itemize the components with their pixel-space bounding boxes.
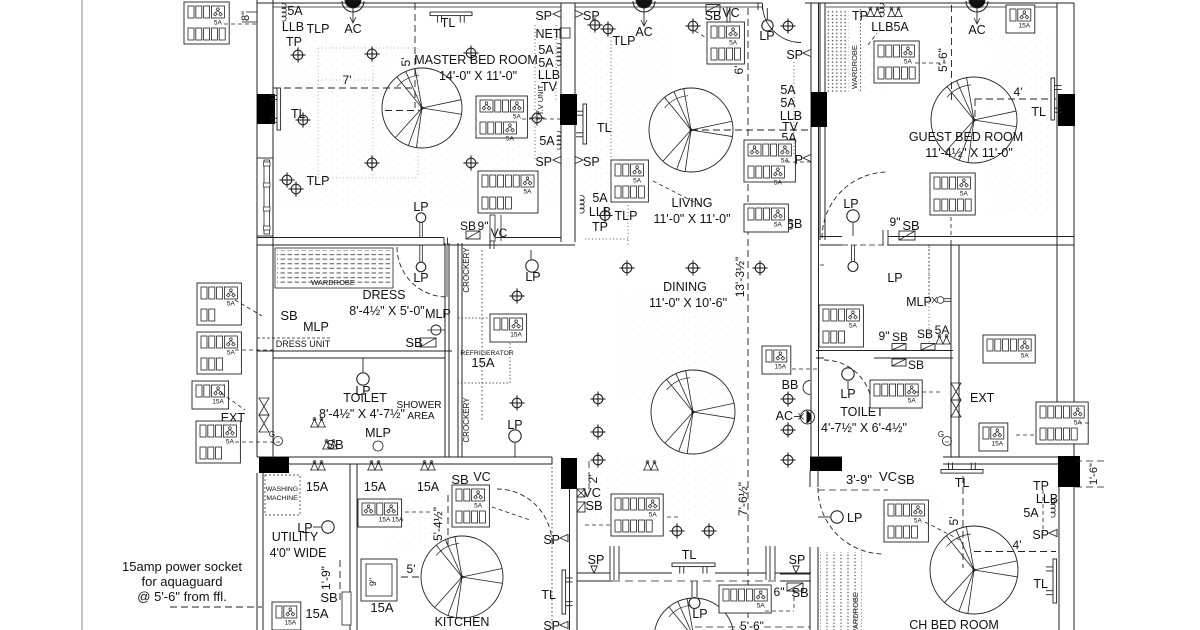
svg-text:SB: SB	[917, 327, 933, 341]
svg-text:SP: SP	[583, 155, 600, 169]
svg-text:SP: SP	[588, 553, 605, 567]
svg-text:MASTER BED ROOM: MASTER BED ROOM	[414, 53, 538, 67]
svg-text:BB: BB	[782, 378, 799, 392]
svg-text:5A: 5A	[633, 178, 642, 185]
svg-text:VC: VC	[491, 226, 508, 240]
svg-text:5': 5'	[947, 517, 961, 526]
svg-text:LP: LP	[759, 29, 774, 43]
svg-text:5A: 5A	[774, 180, 783, 187]
svg-text:TP: TP	[286, 35, 302, 49]
svg-text:5A: 5A	[287, 4, 303, 18]
svg-text:@ 5'-6" from ffl.: @ 5'-6" from ffl.	[137, 589, 226, 604]
svg-text:6': 6'	[732, 66, 746, 75]
svg-text:SP: SP	[1032, 528, 1049, 542]
svg-text:WARDROBE: WARDROBE	[851, 592, 860, 630]
svg-text:5A: 5A	[781, 158, 790, 165]
svg-text:WARDROBE: WARDROBE	[850, 45, 859, 89]
svg-text:14'-0" X 11'-0": 14'-0" X 11'-0"	[439, 69, 517, 83]
svg-text:5A: 5A	[729, 40, 738, 47]
svg-text:MLP: MLP	[365, 426, 391, 440]
svg-text:5A: 5A	[757, 603, 766, 610]
svg-text:15A: 15A	[1019, 23, 1031, 30]
svg-text:4': 4'	[1013, 538, 1022, 552]
svg-text:AC: AC	[776, 409, 793, 423]
svg-text:MLP: MLP	[906, 295, 932, 309]
svg-text:CROCKERY: CROCKERY	[462, 397, 471, 443]
svg-text:15A 15A: 15A 15A	[379, 517, 404, 524]
svg-text:1'-9": 1'-9"	[319, 566, 333, 590]
svg-text:5A: 5A	[539, 134, 555, 148]
svg-text:LLB5A: LLB5A	[871, 20, 909, 34]
svg-text:LP: LP	[297, 521, 312, 535]
svg-text:TL: TL	[597, 121, 612, 135]
svg-text:5'-4½": 5'-4½"	[431, 507, 445, 541]
svg-text:1'-6": 1'-6"	[1088, 463, 1100, 485]
svg-text:9": 9"	[368, 578, 378, 586]
svg-text:TL: TL	[291, 107, 306, 121]
svg-text:5A: 5A	[513, 114, 522, 121]
svg-text:for aquaguard: for aquaguard	[142, 574, 223, 589]
svg-text:TLP: TLP	[615, 209, 638, 223]
svg-text:5A: 5A	[774, 222, 783, 229]
svg-text:AC: AC	[968, 23, 985, 37]
svg-text:TP: TP	[592, 220, 608, 234]
svg-text:5A: 5A	[506, 136, 515, 143]
svg-text:WARDROBE: WARDROBE	[311, 278, 355, 287]
svg-text:TP: TP	[852, 9, 868, 23]
svg-text:LP: LP	[413, 200, 428, 214]
svg-text:15A: 15A	[775, 364, 787, 371]
svg-text:SB: SB	[585, 498, 602, 513]
svg-text:15A: 15A	[417, 480, 440, 494]
svg-text:EXT: EXT	[970, 391, 995, 405]
svg-text:5A: 5A	[592, 191, 608, 205]
svg-text:MLP: MLP	[303, 320, 329, 334]
svg-text:SB: SB	[897, 472, 914, 487]
svg-text:WASHING: WASHING	[266, 486, 298, 493]
svg-text:5A: 5A	[960, 191, 969, 198]
svg-text:LP: LP	[847, 511, 862, 525]
svg-text:5A: 5A	[1021, 353, 1030, 360]
svg-text:11'-0" X 10'-6": 11'-0" X 10'-6"	[649, 296, 727, 310]
svg-text:5A: 5A	[908, 398, 917, 405]
svg-text:15A: 15A	[510, 332, 522, 339]
svg-text:15A: 15A	[212, 399, 224, 406]
svg-text:LP: LP	[887, 271, 902, 285]
svg-text:15A: 15A	[992, 441, 1004, 448]
svg-text:LLB: LLB	[282, 20, 304, 34]
svg-text:TLP: TLP	[307, 22, 330, 36]
svg-text:LP: LP	[507, 418, 522, 432]
svg-text:SB: SB	[320, 590, 337, 605]
svg-text:LP: LP	[413, 271, 428, 285]
svg-text:5A: 5A	[904, 59, 913, 66]
svg-text:TL: TL	[441, 16, 456, 30]
svg-text:8'-4½" X 5'-0": 8'-4½" X 5'-0"	[349, 304, 425, 318]
svg-text:5A: 5A	[226, 439, 235, 446]
svg-text:15A: 15A	[285, 620, 297, 627]
svg-text:AC: AC	[635, 25, 652, 39]
svg-text:KITCHEN: KITCHEN	[435, 615, 490, 629]
svg-text:15A: 15A	[306, 480, 329, 494]
svg-text:VC: VC	[879, 469, 897, 484]
svg-text:15A: 15A	[364, 480, 387, 494]
svg-text:15A: 15A	[471, 355, 494, 370]
svg-text:MLP: MLP	[425, 307, 451, 321]
svg-text:LP: LP	[525, 270, 540, 284]
svg-text:TLP: TLP	[613, 34, 636, 48]
svg-text:15A: 15A	[305, 606, 328, 621]
svg-text:GUEST BED ROOM: GUEST BED ROOM	[909, 130, 1023, 144]
svg-text:G: G	[269, 430, 275, 439]
svg-text:TL: TL	[682, 548, 697, 562]
svg-text:NET: NET	[536, 27, 561, 41]
svg-text:5A: 5A	[649, 512, 658, 519]
svg-text:9": 9"	[879, 329, 890, 343]
svg-text:TL: TL	[541, 588, 556, 602]
svg-text:LP: LP	[692, 607, 707, 621]
svg-text:5A: 5A	[849, 323, 858, 330]
svg-text:SB: SB	[908, 358, 924, 372]
svg-text:SP: SP	[535, 155, 552, 169]
svg-text:5'-6": 5'-6"	[740, 619, 764, 630]
svg-text:SP: SP	[535, 9, 552, 23]
svg-text:4'-7½" X 6'-4½": 4'-7½" X 6'-4½"	[821, 421, 907, 435]
svg-text:LP: LP	[840, 387, 855, 401]
svg-text:5A: 5A	[227, 301, 236, 308]
svg-text:TL: TL	[1031, 105, 1046, 119]
svg-text:CROCKERY: CROCKERY	[462, 247, 471, 293]
svg-text:SP: SP	[789, 553, 806, 567]
svg-text:5A: 5A	[1023, 506, 1039, 520]
svg-text:TP: TP	[1033, 479, 1049, 493]
svg-text:15A: 15A	[370, 600, 393, 615]
svg-text:8'-4½" X 4'-7½": 8'-4½" X 4'-7½"	[319, 407, 405, 421]
svg-text:3'-9": 3'-9"	[846, 472, 872, 487]
svg-text:11'-4½" X 11'-0": 11'-4½" X 11'-0"	[925, 146, 1013, 160]
svg-text:SHOWER: SHOWER	[397, 400, 442, 411]
svg-text:LP: LP	[843, 197, 858, 211]
svg-text:5A: 5A	[524, 189, 533, 196]
svg-text:CH BED ROOM: CH BED ROOM	[909, 618, 999, 630]
svg-text:15amp power socket: 15amp power socket	[122, 559, 242, 574]
svg-text:7'-6½": 7'-6½"	[736, 482, 750, 516]
svg-text:9": 9"	[890, 215, 901, 229]
svg-text:TL: TL	[1033, 577, 1048, 591]
svg-text:TLP: TLP	[307, 174, 330, 188]
svg-text:VC: VC	[722, 6, 739, 20]
svg-text:LIVING: LIVING	[672, 196, 713, 210]
svg-text:8": 8"	[240, 11, 252, 21]
svg-text:4': 4'	[1014, 85, 1023, 99]
svg-text:MACHINE: MACHINE	[266, 495, 298, 502]
svg-text:TL: TL	[955, 476, 970, 490]
svg-text:5': 5'	[407, 562, 416, 576]
svg-text:SB: SB	[892, 330, 908, 344]
svg-text:AC: AC	[344, 22, 361, 36]
svg-text:SP: SP	[786, 48, 803, 62]
svg-text:6": 6"	[774, 585, 785, 599]
svg-text:AREA: AREA	[407, 411, 435, 422]
svg-text:2': 2'	[586, 475, 600, 484]
svg-text:G: G	[938, 430, 944, 439]
svg-text:13'-3½": 13'-3½"	[733, 257, 747, 298]
svg-text:5A: 5A	[474, 503, 483, 510]
svg-text:9": 9"	[478, 219, 489, 233]
svg-text:5'-6": 5'-6"	[936, 48, 950, 72]
svg-text:4'0" WIDE: 4'0" WIDE	[270, 546, 327, 560]
svg-text:SB: SB	[280, 308, 297, 323]
svg-text:5A: 5A	[914, 518, 923, 525]
svg-text:VC: VC	[473, 470, 490, 484]
svg-text:5': 5'	[399, 58, 413, 67]
svg-text:LLB: LLB	[1036, 492, 1058, 506]
svg-text:TV: TV	[541, 80, 558, 94]
svg-text:DRESS: DRESS	[362, 288, 405, 302]
svg-text:DRESS UNIT: DRESS UNIT	[276, 339, 331, 349]
svg-text:LP: LP	[355, 384, 370, 398]
svg-text:5A: 5A	[538, 43, 554, 57]
svg-text:5A: 5A	[214, 20, 223, 27]
svg-text:5A: 5A	[227, 350, 236, 357]
svg-text:DINING: DINING	[663, 280, 707, 294]
svg-text:SP: SP	[583, 9, 600, 23]
svg-text:11'-0" X 11'-0": 11'-0" X 11'-0"	[653, 212, 730, 226]
